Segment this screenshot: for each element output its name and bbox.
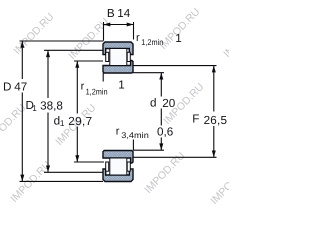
svg-text:D: D [3,81,11,94]
svg-text:r: r [136,32,140,44]
svg-text:1,2min: 1,2min [141,37,163,47]
svg-text:26,5: 26,5 [204,114,228,127]
svg-text:47: 47 [14,81,27,94]
svg-text:F: F [192,113,199,126]
svg-text:1: 1 [32,103,37,113]
svg-text:d: d [150,97,157,110]
svg-text:1: 1 [60,118,65,128]
svg-text:20: 20 [162,97,176,110]
svg-text:1: 1 [118,78,125,91]
svg-text:3,4min: 3,4min [121,130,149,140]
svg-text:r: r [81,81,85,93]
svg-text:B: B [107,7,115,20]
svg-text:IMPOD.RU: IMPOD.RU [208,161,229,207]
svg-text:IMPOD.RU: IMPOD.RU [221,14,229,60]
svg-text:29,7: 29,7 [68,115,92,128]
svg-text:0,6: 0,6 [157,126,173,139]
svg-text:IMPOD.RU: IMPOD.RU [0,102,28,148]
svg-text:r: r [116,125,120,137]
svg-text:1,2min: 1,2min [86,87,108,97]
svg-text:38,8: 38,8 [40,100,63,113]
svg-text:IMPOD.RU: IMPOD.RU [157,6,202,52]
svg-text:14: 14 [117,7,131,20]
svg-text:1: 1 [175,32,182,45]
